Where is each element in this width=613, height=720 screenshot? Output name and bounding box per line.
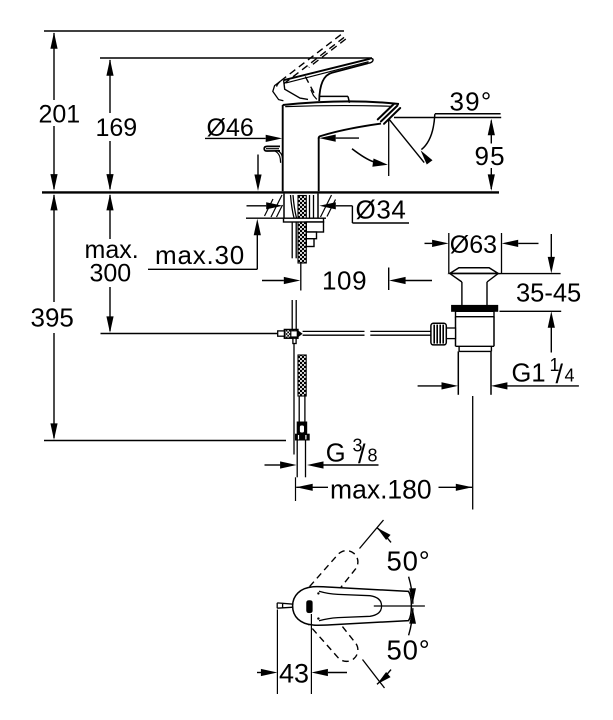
svg-text:35-45: 35-45	[516, 279, 581, 307]
svg-text:4: 4	[565, 366, 575, 386]
svg-text:Ø46: Ø46	[207, 114, 254, 142]
svg-text:300: 300	[90, 260, 132, 288]
svg-text:Ø63: Ø63	[450, 231, 497, 259]
svg-text:max.30: max.30	[155, 240, 245, 270]
svg-text:G1: G1	[512, 359, 546, 387]
svg-text:109: 109	[322, 266, 367, 296]
svg-text:/: /	[556, 359, 564, 389]
svg-text:G: G	[326, 439, 346, 467]
svg-text:max.180: max.180	[330, 474, 432, 504]
svg-text:8: 8	[368, 446, 378, 466]
svg-text:169: 169	[96, 114, 138, 142]
svg-text:50°: 50°	[387, 546, 431, 577]
svg-text:395: 395	[31, 303, 74, 333]
svg-text:39°: 39°	[450, 87, 493, 117]
svg-text:201: 201	[39, 101, 81, 129]
svg-text:43: 43	[279, 659, 309, 689]
svg-text:95: 95	[475, 141, 506, 171]
svg-text:Ø34: Ø34	[356, 195, 407, 225]
svg-text:50°: 50°	[387, 635, 431, 666]
